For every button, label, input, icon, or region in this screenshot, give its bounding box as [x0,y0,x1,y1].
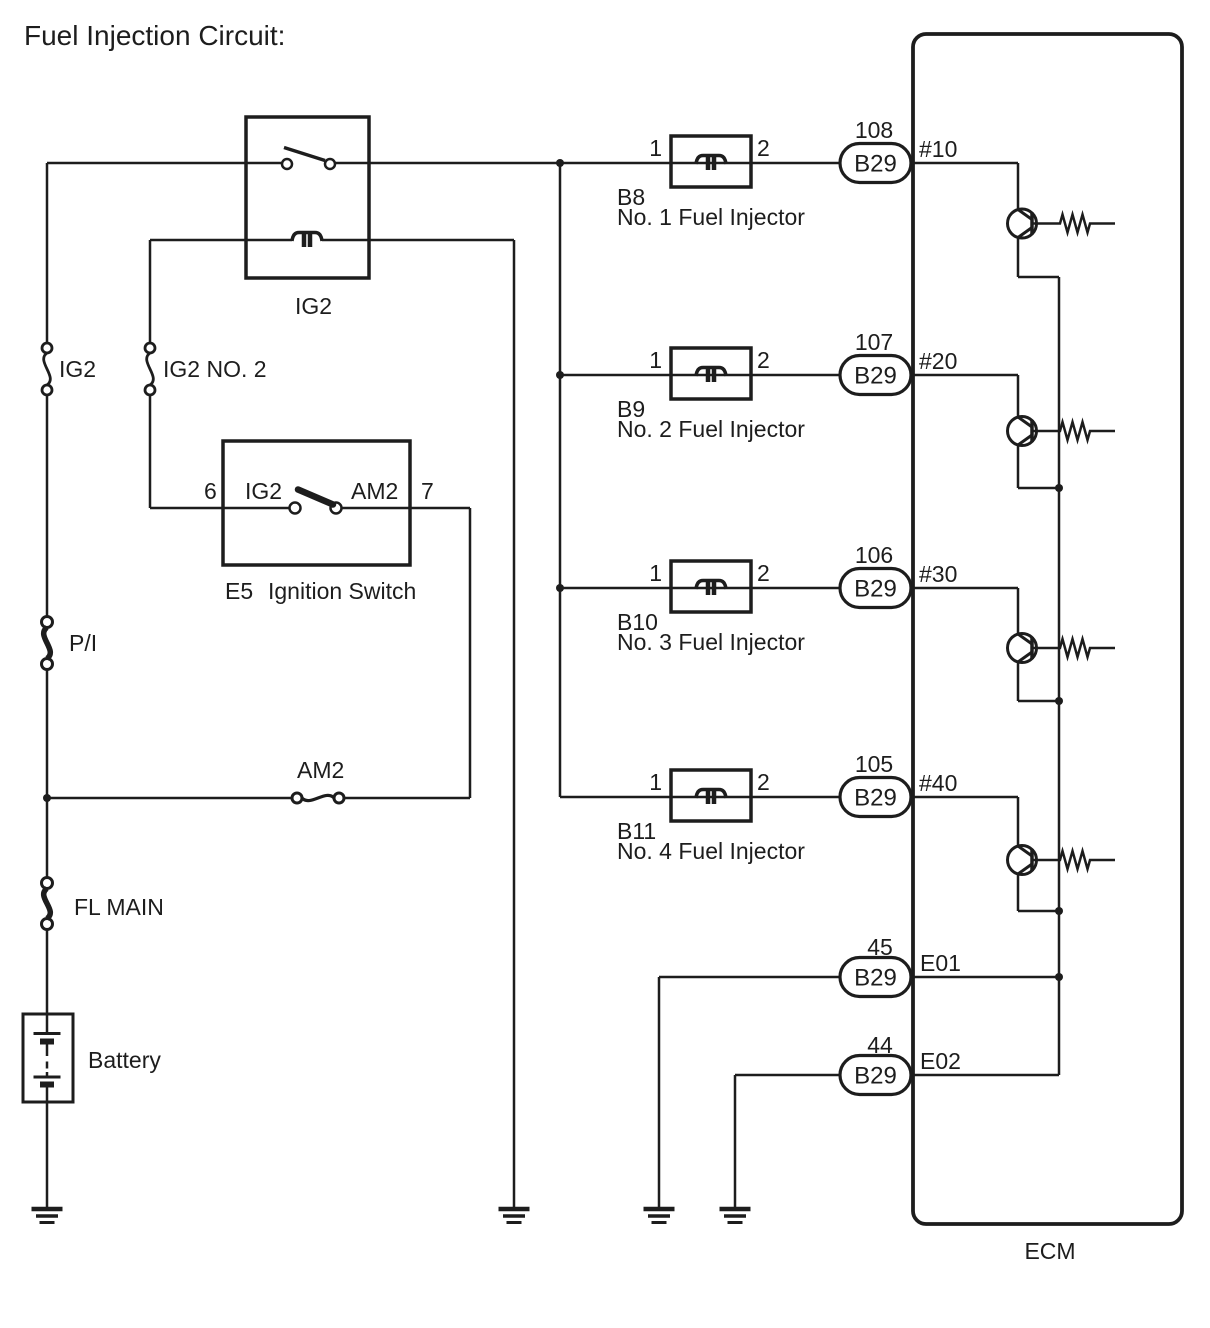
svg-text:2: 2 [757,769,770,795]
svg-text:E01: E01 [920,950,961,976]
svg-text:IG2: IG2 [59,356,96,382]
svg-text:B29: B29 [854,363,897,390]
svg-text:1: 1 [649,135,662,161]
svg-text:B29: B29 [854,965,897,992]
svg-text:Fuel Injection Circuit:: Fuel Injection Circuit: [24,20,285,51]
svg-text:107: 107 [855,329,893,355]
svg-text:Ignition Switch: Ignition Switch [268,578,416,604]
svg-text:45: 45 [867,934,893,960]
svg-text:No. 1 Fuel Injector: No. 1 Fuel Injector [617,204,805,230]
svg-text:#30: #30 [919,561,957,587]
svg-text:2: 2 [757,347,770,373]
svg-text:B29: B29 [854,785,897,812]
svg-text:108: 108 [855,117,893,143]
svg-text:#10: #10 [919,136,957,162]
svg-text:B29: B29 [854,151,897,178]
svg-text:No. 2 Fuel Injector: No. 2 Fuel Injector [617,416,805,442]
svg-text:AM2: AM2 [297,757,344,783]
svg-text:B29: B29 [854,576,897,603]
svg-text:Battery: Battery [88,1047,161,1073]
svg-text:2: 2 [757,135,770,161]
svg-text:AM2: AM2 [351,478,398,504]
svg-text:No. 3 Fuel Injector: No. 3 Fuel Injector [617,629,805,655]
svg-text:P/I: P/I [69,630,97,656]
svg-text:#20: #20 [919,348,957,374]
svg-text:106: 106 [855,542,893,568]
svg-text:IG2: IG2 [245,478,282,504]
svg-text:2: 2 [757,560,770,586]
svg-text:1: 1 [649,769,662,795]
svg-text:B29: B29 [854,1063,897,1090]
svg-text:7: 7 [421,478,434,504]
svg-text:FL MAIN: FL MAIN [74,894,164,920]
svg-text:#40: #40 [919,770,957,796]
svg-text:E5: E5 [225,578,253,604]
svg-text:E02: E02 [920,1048,961,1074]
svg-text:No. 4 Fuel Injector: No. 4 Fuel Injector [617,838,805,864]
svg-text:1: 1 [649,560,662,586]
svg-text:IG2: IG2 [295,293,332,319]
svg-text:105: 105 [855,751,893,777]
svg-text:ECM: ECM [1024,1238,1075,1264]
svg-text:IG2 NO. 2: IG2 NO. 2 [163,356,267,382]
svg-text:1: 1 [649,347,662,373]
svg-text:6: 6 [204,478,217,504]
svg-text:44: 44 [867,1032,893,1058]
